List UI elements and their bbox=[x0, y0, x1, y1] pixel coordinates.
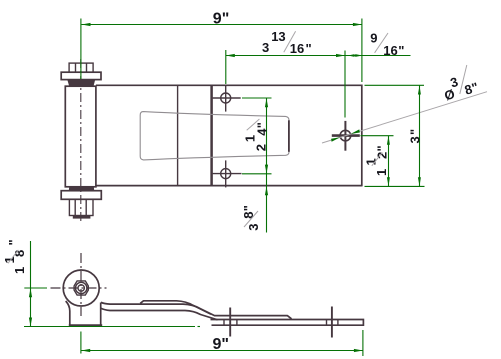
svg-text:": " bbox=[375, 145, 390, 151]
hinge boss circle bbox=[63, 270, 99, 306]
boss centerline vertical bbox=[80, 253, 82, 316]
svg-text:1: 1 bbox=[374, 169, 389, 176]
svg-text:13: 13 bbox=[271, 29, 285, 44]
strap lip line bbox=[140, 301, 211, 314]
bolt hex head top bbox=[69, 63, 93, 72]
leader line dia 3/8 bbox=[322, 92, 487, 143]
hole right bbox=[340, 130, 351, 141]
svg-text:16: 16 bbox=[383, 43, 397, 58]
svg-text:3: 3 bbox=[246, 224, 261, 231]
bolt centerline bbox=[80, 59, 82, 222]
hole edges left bbox=[223, 320, 225, 326]
dimension 1 1/8 inch bbox=[24, 287, 47, 289]
hasp plate outline bbox=[96, 85, 362, 187]
svg-text:8: 8 bbox=[12, 250, 27, 257]
svg-text:9": 9" bbox=[213, 10, 229, 27]
leader arrow lower bbox=[331, 137, 340, 142]
boss centerline horizontal bbox=[51, 287, 107, 289]
boss base bbox=[66, 301, 101, 325]
nut hole bbox=[78, 285, 84, 291]
svg-text:9": 9" bbox=[213, 336, 229, 353]
svg-text:": " bbox=[6, 239, 21, 245]
svg-text:": " bbox=[306, 41, 312, 56]
bolt washer bottom bbox=[61, 191, 101, 200]
bolt washer top bbox=[61, 72, 101, 79]
hinge barrel bbox=[65, 86, 96, 187]
tongue tip edge (dark) bbox=[288, 120, 290, 152]
hole edges right bbox=[326, 320, 328, 326]
svg-text:16: 16 bbox=[290, 41, 304, 56]
svg-text:9: 9 bbox=[370, 31, 377, 46]
hole upper-left bbox=[221, 93, 231, 103]
latch tongue (hidden, light gray) bbox=[140, 112, 289, 160]
strap top edge bbox=[101, 302, 292, 319]
dimension 3 13/16 inch bbox=[225, 50, 227, 84]
svg-text:2: 2 bbox=[254, 144, 269, 151]
dimension 9 inch top bbox=[80, 19, 82, 80]
svg-text:1: 1 bbox=[12, 267, 27, 274]
svg-text:8: 8 bbox=[241, 212, 256, 219]
dimension 3 inch bbox=[365, 84, 425, 86]
nut circle bbox=[76, 282, 87, 293]
hole centerline right bbox=[331, 307, 333, 338]
dimension 9/16 inch bbox=[348, 54, 355, 57]
nut hexagon bbox=[74, 281, 88, 295]
bolt end band (dark) bbox=[73, 216, 91, 219]
strap bottom edge bbox=[101, 308, 218, 320]
leader arrow upper bbox=[351, 129, 360, 134]
bolt hex nut bottom bbox=[69, 199, 93, 215]
svg-text:": " bbox=[398, 43, 404, 58]
dimension 9 inch bottom bbox=[80, 332, 82, 354]
svg-text:": " bbox=[254, 122, 269, 128]
bend line left bbox=[177, 85, 179, 185]
svg-text:": " bbox=[241, 205, 256, 211]
dimension 3/8 inch bbox=[266, 174, 268, 233]
svg-text:3: 3 bbox=[262, 40, 269, 55]
bend line right (thick) bbox=[210, 85, 213, 187]
bolt collar top (dark) bbox=[67, 80, 95, 87]
hole lower-left bbox=[221, 169, 231, 179]
dia 3/8 label bbox=[439, 69, 480, 104]
base plate side bbox=[211, 320, 364, 326]
datum baseline bbox=[24, 326, 195, 328]
dia 3/8 fraction slash bbox=[460, 65, 467, 94]
svg-text:3: 3 bbox=[407, 136, 422, 143]
dimension 2 1/4 inch bbox=[242, 97, 272, 99]
dimension 1 1/2 inch bbox=[361, 135, 394, 137]
boss base bottom edge (thick) bbox=[69, 324, 102, 326]
svg-text:": " bbox=[407, 129, 422, 135]
bolt collar bottom (dark) bbox=[69, 187, 94, 191]
hole centerline left bbox=[229, 308, 231, 337]
